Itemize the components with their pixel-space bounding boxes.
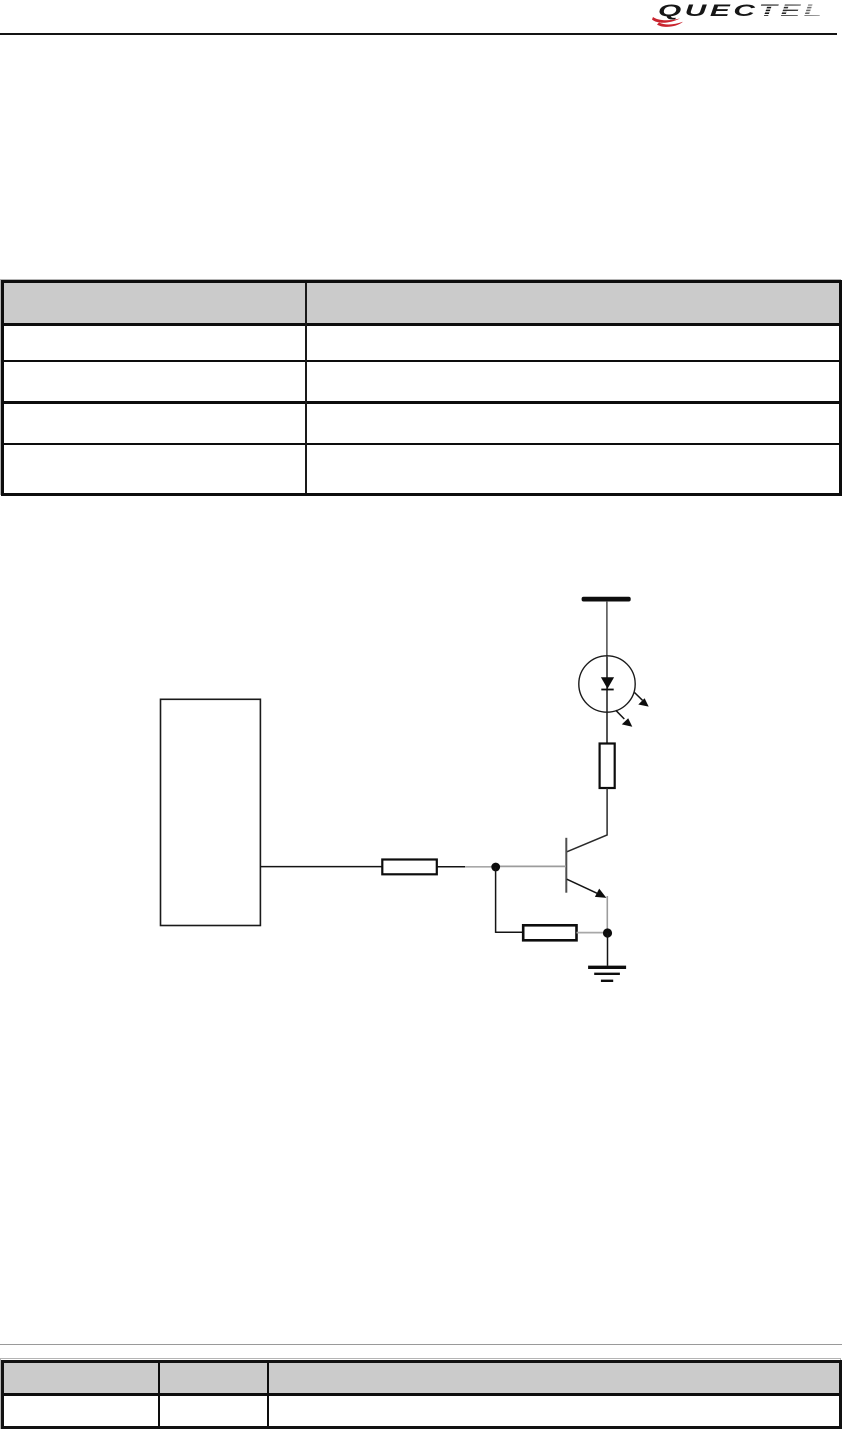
column separator 1 (158, 1363, 160, 1426)
column separator (305, 283, 307, 493)
wire module to R2 (260, 866, 382, 868)
wire R1 to collector elbow (567, 788, 607, 852)
wire through LED (606, 657, 608, 744)
row 2 separator (4, 401, 839, 404)
transistor Q1 base bar (565, 838, 567, 893)
resistor R3 (pulldown, horizontal) (523, 925, 576, 940)
header row shading (4, 1363, 839, 1393)
resistor R1 (collector, vertical) (600, 744, 615, 789)
LED cathode bar (601, 689, 613, 691)
LED diode triangle (601, 677, 614, 689)
wire node B down (495, 867, 497, 933)
row 1 separator (4, 360, 839, 363)
transistor Q1 emitter arrowhead (595, 889, 607, 898)
LED D1 circle (579, 656, 635, 712)
resistor R2 (base, horizontal) (382, 860, 437, 875)
node E junction dot (603, 928, 612, 937)
VBAT power rail (582, 597, 631, 602)
header separator (4, 323, 839, 326)
transistor Q1 emitter line (567, 879, 600, 894)
row 3 separator (4, 443, 839, 446)
ground symbol (588, 967, 626, 981)
red swoosh under Q (652, 17, 680, 23)
module block (161, 699, 261, 925)
wire emitter to node E (606, 896, 608, 933)
header separator (4, 1393, 839, 1396)
footer rule (0, 1344, 842, 1345)
wire node E to ground (607, 933, 609, 966)
wire R3 to node E (577, 932, 605, 934)
wire R2 to node B (437, 866, 465, 868)
LED light arrow 2 (616, 710, 633, 726)
node B junction dot (491, 863, 500, 872)
Quectel logo wordmark (630, 0, 842, 32)
wire to R3 (496, 931, 524, 933)
header rule (0, 33, 837, 35)
wire node B to base (499, 865, 566, 867)
header row shading (4, 283, 839, 323)
LED light arrow 1 (635, 693, 649, 707)
column separator 2 (267, 1363, 269, 1426)
wire rail to LED (606, 601, 608, 657)
